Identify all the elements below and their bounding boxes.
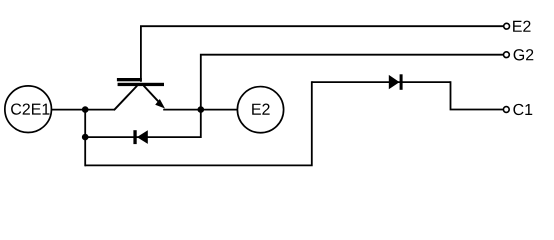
label C2E1 <box>11 103 49 114</box>
terminal E2 <box>504 23 510 29</box>
transistor Q2 (IGBT) gate bar <box>117 78 142 81</box>
wire: G2 run from gate node to G2 terminal <box>201 55 504 138</box>
transistor Q2 (IGBT) body bar <box>118 83 164 86</box>
label E2 <box>513 21 530 32</box>
wire: bottom run from C2E1 branch to diode D1 riser <box>85 81 312 165</box>
diode D2 cathode bar <box>133 130 136 144</box>
junction dot at diode D2 branch <box>82 134 89 141</box>
wire: top run from IGBT collector to E2 terminal <box>141 26 504 82</box>
label E2 (pad) <box>252 104 269 115</box>
diode D1 cathode bar <box>400 74 403 90</box>
wire: left vertical branch down from C2E1 node <box>84 110 86 167</box>
diode D1 triangle <box>389 75 400 89</box>
wire: drop from diode D1 cathode to C1 terminal <box>451 81 504 109</box>
terminal C1 <box>503 107 509 113</box>
wire: emitter to E2 pad <box>163 109 237 111</box>
node E2 <box>237 87 283 133</box>
wire: anti-parallel diode D2 branch <box>85 136 201 138</box>
label C1 <box>513 104 532 115</box>
junction dot at C2E1 branch <box>82 106 89 113</box>
label G2 <box>514 49 534 60</box>
junction dot at emitter/gate-return <box>198 106 205 113</box>
transistor Q2 (IGBT) emitter arrowhead <box>155 99 165 109</box>
transistor Q2 (IGBT) emitter diagonal <box>144 86 161 105</box>
transistor Q2 (IGBT) collector-side diagonal <box>114 86 137 111</box>
diode D2 triangle <box>137 130 148 144</box>
terminal G2 <box>504 52 510 58</box>
node C2E1 <box>5 86 52 133</box>
wire: diode D1 horizontal run <box>312 81 451 83</box>
wire: C2E1 to IGBT collector diagonal <box>51 109 114 111</box>
